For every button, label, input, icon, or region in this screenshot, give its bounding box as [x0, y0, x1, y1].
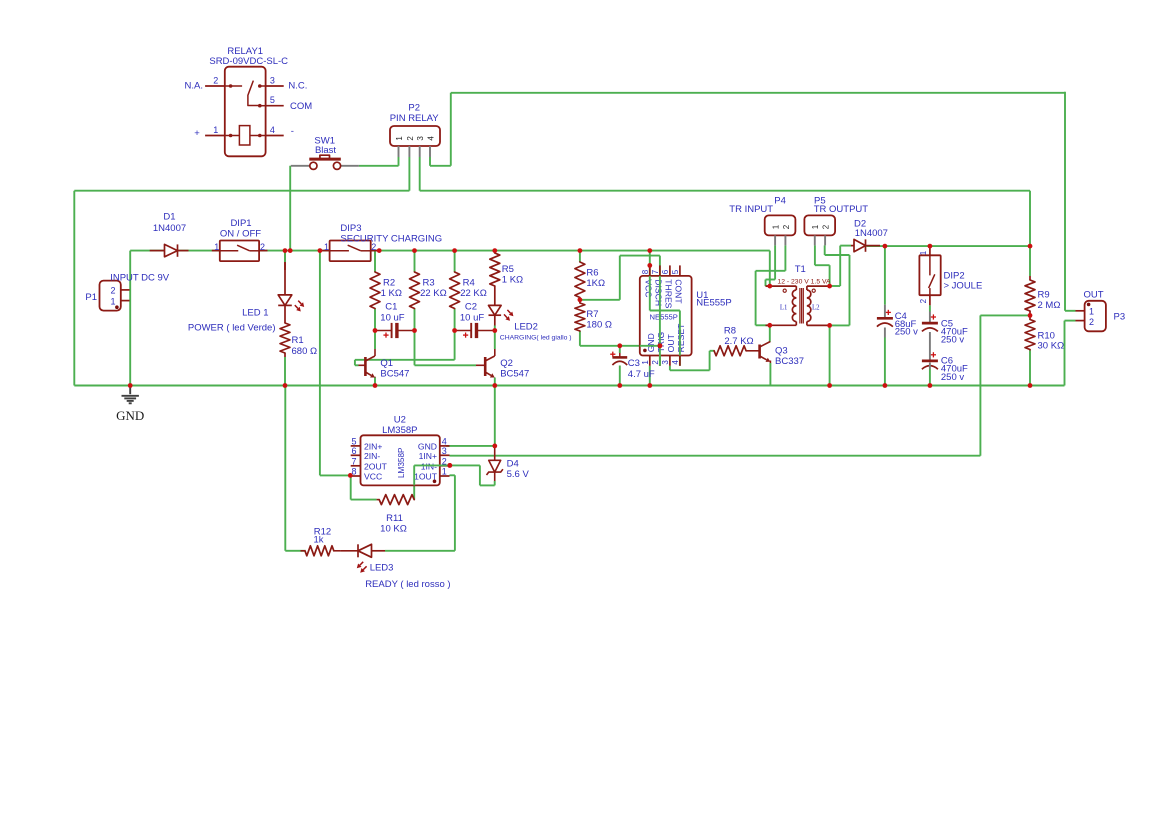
svg-text:R2: R2 — [383, 277, 395, 288]
svg-text:VCC: VCC — [364, 472, 382, 482]
svg-text:INPUT DC 9V: INPUT DC 9V — [110, 272, 170, 283]
junction dot 11 — [412, 328, 417, 333]
resistor R1 680 — [280, 323, 290, 353]
junction dot 38 — [492, 444, 497, 449]
svg-text:5: 5 — [671, 269, 680, 274]
zener diode D4 5.6V — [494, 446, 496, 460]
svg-text:4.7 uF: 4.7 uF — [628, 369, 655, 380]
resistor R11 10K — [377, 499, 380, 501]
svg-text:10 uF: 10 uF — [380, 313, 404, 324]
wire D2 cathode to corner — [867, 245, 1031, 247]
svg-text:LED3: LED3 — [370, 562, 394, 573]
switch DIP1 ON/OFF — [212, 250, 220, 252]
svg-text:COM: COM — [290, 101, 312, 112]
wire U1 interior DISCH-TRIG overlay — [659, 276, 661, 366]
svg-text:1IN+: 1IN+ — [419, 451, 437, 461]
svg-text:2 MΩ: 2 MΩ — [1038, 300, 1061, 311]
svg-text:6: 6 — [661, 269, 670, 274]
LED LED3 arrows — [360, 562, 363, 565]
svg-text:TR INPUT: TR INPUT — [729, 204, 773, 215]
wire U2 1IN- interior overlay — [413, 465, 415, 485]
wire R2 bottom to C-row — [374, 309, 376, 331]
svg-text:1KΩ: 1KΩ — [586, 278, 605, 289]
connector P4 TR INPUT — [765, 215, 796, 235]
wire C3 top lead — [619, 346, 621, 353]
wire SW1 column — [289, 166, 291, 251]
svg-text:NE555P: NE555P — [696, 298, 731, 309]
svg-text:U2: U2 — [394, 414, 406, 425]
junction dot 4 — [377, 248, 382, 253]
junction dot 23 — [1028, 383, 1033, 388]
svg-text:LED 1: LED 1 — [242, 308, 268, 319]
svg-text:1: 1 — [214, 242, 219, 252]
wire U1 interior VCC-RESET overlay — [649, 276, 651, 311]
junction dot 12 — [452, 328, 457, 333]
wire C4 bottom plus — [886, 311, 891, 313]
svg-text:2: 2 — [260, 242, 265, 252]
wire U1 interior TRIG row overlay — [640, 345, 660, 347]
svg-text:C3: C3 — [628, 358, 640, 369]
junction dot 6 — [452, 248, 457, 253]
junction dot 27 — [647, 263, 652, 268]
svg-text:1: 1 — [772, 224, 781, 229]
svg-text:PIN RELAY: PIN RELAY — [390, 113, 440, 124]
svg-text:L2: L2 — [812, 304, 820, 311]
resistor R5 1K — [490, 253, 500, 286]
resistor R6 1K — [575, 262, 585, 298]
junction dot 10 — [373, 328, 378, 333]
junction dot U2 1IN- overlay — [447, 463, 452, 468]
wire P5 pin2 to T1 secondary bottom — [824, 245, 826, 255]
wire R10 bottom — [1029, 351, 1031, 386]
ground symbol — [129, 386, 131, 395]
svg-text:TRIG: TRIG — [656, 331, 666, 352]
svg-text:3: 3 — [270, 76, 275, 86]
svg-text:> JOULE: > JOULE — [944, 281, 983, 292]
junction dot 7 — [492, 248, 497, 253]
capacitor C2 10uF — [455, 330, 472, 332]
svg-text:GND: GND — [116, 408, 144, 423]
junction dot 3 — [318, 248, 323, 253]
wire P4 pin2 to T1 primary bottom — [784, 245, 786, 270]
junction dot 33 — [928, 244, 933, 249]
svg-text:Blast: Blast — [315, 145, 336, 156]
svg-text:LM358P: LM358P — [382, 425, 417, 436]
junction dot 35 — [1028, 313, 1033, 318]
svg-text:2: 2 — [919, 298, 928, 303]
wire R6 column — [579, 251, 581, 262]
junction dot 8 — [578, 248, 583, 253]
svg-text:CHARGING( led giallo ): CHARGING( led giallo ) — [500, 335, 572, 342]
wire T1 secondary top to D2 anode — [830, 285, 841, 287]
svg-text:1 KΩ: 1 KΩ — [502, 274, 523, 285]
wire Q1 emitter to rail — [374, 378, 376, 386]
svg-text:READY ( led rosso ): READY ( led rosso ) — [365, 579, 450, 590]
switch DIP3 SECURITY CHARGING — [320, 250, 330, 252]
wire right column top — [1064, 92, 1066, 311]
resistor R12 1k — [301, 550, 306, 552]
junction dot 16 — [373, 383, 378, 388]
wire C1-right to Q2 base — [414, 331, 416, 366]
wire left loop vertical — [73, 191, 75, 386]
wire LED2 to C-row — [494, 315, 496, 325]
svg-text:DISCH: DISCH — [654, 279, 664, 306]
junction dot 29 — [767, 323, 772, 328]
svg-text:10 uF: 10 uF — [460, 313, 484, 324]
LED LED1 — [284, 262, 286, 295]
svg-text:P3: P3 — [1114, 312, 1126, 323]
transformer T1 — [766, 285, 797, 287]
svg-text:TR OUTPUT: TR OUTPUT — [814, 204, 869, 215]
wire P2 pin2 drop — [408, 157, 410, 191]
wire DIP2 bottom to C5 — [929, 305, 931, 311]
IC U1 NE555P body — [640, 276, 692, 356]
junction dot 19 — [647, 383, 652, 388]
svg-text:1: 1 — [110, 296, 115, 306]
connector P1 INPUT DC 9V — [100, 281, 121, 311]
wire top rail (P2 pin4 to right column) — [451, 92, 1065, 94]
diode D1 1N4007 — [150, 250, 165, 252]
svg-text:R3: R3 — [423, 277, 435, 288]
svg-text:SRD-09VDC-SL-C: SRD-09VDC-SL-C — [209, 56, 288, 67]
svg-text:4: 4 — [270, 125, 275, 135]
svg-text:R1: R1 — [292, 335, 304, 346]
wire C3 bottom to rail — [619, 366, 621, 386]
svg-text:BC337: BC337 — [775, 356, 804, 367]
wire R9-R10 junction tap — [980, 314, 1030, 316]
wire main rail — [130, 250, 770, 252]
LED LED3 — [340, 550, 358, 552]
svg-text:2: 2 — [651, 360, 660, 365]
svg-text:R7: R7 — [586, 309, 598, 320]
svg-text:2IN-: 2IN- — [364, 451, 380, 461]
svg-text:N.A.: N.A. — [185, 81, 203, 92]
wire Q3 emitter to rail — [769, 363, 771, 386]
wire P5 pin1 to T1 secondary top — [814, 245, 816, 265]
svg-text:8: 8 — [641, 269, 650, 274]
svg-text:1OUT: 1OUT — [414, 472, 438, 482]
wire bottom rail — [74, 385, 1064, 387]
svg-text:P2: P2 — [408, 103, 420, 114]
svg-text:C2: C2 — [465, 301, 477, 312]
wire main rail to T1 primary — [769, 251, 771, 287]
svg-text:2: 2 — [110, 286, 115, 296]
connector P5 TR OUTPUT — [804, 215, 835, 235]
svg-text:250 v: 250 v — [941, 372, 964, 383]
wire R5 column — [494, 251, 496, 253]
wire U2 1OUT to LED3 — [450, 474, 455, 476]
svg-text:250 v: 250 v — [941, 335, 964, 346]
diode D2 1N4007 — [851, 245, 854, 247]
wire mid rail right section — [420, 190, 1030, 192]
wire DIP2 top stub — [929, 246, 931, 255]
wire C2-left to Q1 base — [454, 331, 456, 360]
junction dot 32 — [883, 244, 888, 249]
wire R3 bottom to C-row — [414, 309, 416, 331]
svg-text:LED2: LED2 — [514, 321, 538, 332]
LED LED1 arrows — [298, 301, 301, 304]
junction dot 5 — [412, 248, 417, 253]
switch SW1 Blast — [291, 165, 310, 167]
svg-text:30 KΩ: 30 KΩ — [1038, 341, 1065, 352]
svg-text:22 KΩ: 22 KΩ — [420, 288, 447, 299]
capacitor C6 470uF — [922, 360, 938, 363]
svg-text:22 KΩ: 22 KΩ — [460, 288, 487, 299]
svg-text:BC547: BC547 — [380, 369, 409, 380]
junction dot 30 — [827, 284, 832, 289]
wire Q3 collector riser — [769, 325, 771, 342]
wire bottom rail right riser to P3 pin2 — [1064, 321, 1066, 386]
svg-text:1: 1 — [1089, 306, 1094, 316]
svg-text:5: 5 — [270, 95, 275, 105]
wire P2 pin4 drop — [429, 157, 431, 166]
svg-text:C1: C1 — [385, 301, 397, 312]
junction dot 37 — [447, 463, 452, 468]
svg-text:5.6 V: 5.6 V — [507, 469, 530, 480]
svg-text:2: 2 — [822, 224, 831, 229]
junction dot 34 — [1028, 244, 1033, 249]
svg-text:7: 7 — [351, 456, 356, 466]
svg-text:2: 2 — [406, 136, 415, 141]
svg-text:12 - 230 V 1.5 VA: 12 - 230 V 1.5 VA — [777, 279, 831, 286]
svg-text:+: + — [194, 128, 200, 139]
wire U2 1IN- net — [413, 465, 415, 499]
transistor Q1 BC547 — [364, 357, 367, 376]
wire Q2 emitter to rail — [494, 378, 496, 386]
svg-text:2: 2 — [213, 76, 218, 86]
wire mid rail left section — [74, 190, 409, 192]
svg-text:RESET: RESET — [676, 323, 686, 352]
wire LED3 row left — [301, 550, 306, 552]
transistor Q3 BC337 — [758, 345, 761, 359]
resistor R3 — [410, 272, 420, 309]
svg-text:7: 7 — [651, 269, 660, 274]
svg-text:3: 3 — [661, 360, 670, 365]
svg-text:2OUT: 2OUT — [364, 461, 388, 471]
svg-text:250 v: 250 v — [895, 326, 918, 337]
svg-text:3: 3 — [442, 446, 447, 456]
junction dot 21 — [883, 383, 888, 388]
svg-text:D4: D4 — [507, 459, 519, 470]
wire R11 left to VCC — [351, 499, 377, 501]
svg-text:THRES: THRES — [664, 279, 674, 308]
wire R1 column below rail to LED3 row — [284, 386, 286, 551]
junction dot 18 — [617, 383, 622, 388]
resistor R9 2M — [1029, 276, 1031, 280]
LED LED2 arrows — [507, 310, 510, 313]
svg-text:Q3: Q3 — [775, 346, 788, 357]
wire P3 pin1 feed — [1065, 310, 1076, 312]
wire R9 top — [1029, 246, 1031, 276]
svg-text:BC547: BC547 — [500, 369, 529, 380]
connector P2 PIN RELAY — [390, 126, 440, 146]
junction dot 2 — [288, 248, 293, 253]
wire U1 VCC-RESET through symbol — [649, 265, 651, 310]
wire LED1 column green stub — [284, 251, 286, 262]
svg-text:N.C.: N.C. — [288, 81, 307, 92]
wire R7 bottom to C3/TRIG — [579, 331, 581, 346]
svg-text:3: 3 — [416, 136, 425, 141]
junction dot 36 — [348, 473, 353, 478]
transistor Q2 BC547 — [484, 357, 487, 376]
svg-text:R5: R5 — [502, 264, 514, 275]
svg-text:R11: R11 — [386, 513, 403, 524]
svg-text:POWER ( led Verde): POWER ( led Verde) — [188, 323, 276, 334]
svg-text:1: 1 — [811, 224, 820, 229]
junction dot 22 — [928, 383, 933, 388]
svg-text:10 KΩ: 10 KΩ — [380, 523, 407, 534]
junction dot 13 — [492, 328, 497, 333]
svg-text:680 Ω: 680 Ω — [292, 346, 318, 357]
capacitor C3 4.7uF — [619, 353, 621, 357]
wire SW1 to P2 pin1 — [359, 165, 399, 167]
op-amp U2 LM358P body — [361, 435, 440, 485]
svg-text:Q1: Q1 — [380, 358, 393, 369]
wire C4 top — [884, 246, 886, 305]
svg-text:LM358P: LM358P — [397, 447, 406, 478]
wire P4 pin1 to T1 primary top — [774, 245, 776, 279]
relay RELAY1 SRD-09VDC-SL-C — [225, 67, 266, 157]
wire mid-rail drop at x=1030 — [1029, 191, 1031, 246]
junction dot 20 — [827, 383, 832, 388]
svg-text:DIP2: DIP2 — [944, 270, 965, 281]
svg-text:1: 1 — [919, 250, 928, 255]
junction dot 24 — [578, 297, 583, 302]
wire Q2 collector riser — [494, 331, 496, 350]
svg-text:D1: D1 — [163, 212, 175, 223]
svg-text:1: 1 — [324, 242, 329, 252]
svg-text:OUT: OUT — [1083, 289, 1103, 300]
capacitor C4 68uF — [884, 305, 886, 319]
svg-text:DIP3: DIP3 — [340, 223, 361, 234]
svg-text:1 KΩ: 1 KΩ — [381, 288, 402, 299]
resistor R2 — [370, 272, 380, 309]
svg-text:180 Ω: 180 Ω — [586, 320, 612, 331]
svg-text:GND: GND — [646, 333, 656, 352]
svg-text:1: 1 — [395, 136, 404, 141]
capacitor C1 10uF — [375, 330, 392, 332]
svg-text:6: 6 — [351, 446, 356, 456]
junction dot TRIG overlay — [658, 343, 663, 348]
svg-text:2IN+: 2IN+ — [364, 441, 382, 451]
wire R4 column — [454, 251, 456, 272]
LED LED2 — [489, 305, 502, 315]
svg-text:VCC: VCC — [644, 279, 654, 297]
wire Q1 collector riser — [374, 331, 376, 350]
svg-text:CONT: CONT — [674, 279, 684, 304]
connector P3 OUT — [1085, 301, 1106, 332]
svg-text:1k: 1k — [313, 535, 323, 546]
wire U1 OUT to R8 — [669, 366, 671, 371]
svg-text:2: 2 — [782, 224, 791, 229]
svg-text:1: 1 — [641, 360, 650, 365]
junction dot 31 — [827, 323, 832, 328]
svg-text:OUT: OUT — [666, 333, 676, 352]
svg-text:T1: T1 — [795, 264, 806, 275]
wire U1 GND to rail — [649, 366, 651, 386]
junction dot 1 — [283, 248, 288, 253]
junction dot 14 — [128, 383, 133, 388]
svg-text:P1: P1 — [85, 292, 97, 303]
capacitor C5 470uF — [929, 312, 931, 324]
svg-text:1: 1 — [442, 467, 447, 477]
svg-text:4: 4 — [671, 360, 680, 365]
transistor Q1 base stub — [359, 364, 366, 366]
wire R6-R7 junction to DISCH — [580, 299, 620, 301]
svg-text:2.7 KΩ: 2.7 KΩ — [724, 336, 753, 347]
wire R2 column — [374, 251, 376, 272]
svg-text:ON / OFF: ON / OFF — [220, 228, 261, 239]
wire R4 bottom to C-row — [454, 309, 456, 331]
svg-text:NE555P: NE555P — [650, 313, 678, 322]
svg-text:2: 2 — [1089, 317, 1094, 327]
svg-text:SECURITY CHARGING: SECURITY CHARGING — [340, 233, 442, 244]
transistor Q2 base stub — [476, 364, 485, 366]
svg-text:2: 2 — [371, 242, 376, 252]
switch DIP2 >JOULE — [919, 255, 940, 295]
resistor R8 2.7K — [714, 346, 746, 356]
svg-text:GND: GND — [418, 441, 437, 451]
svg-text:1: 1 — [213, 125, 218, 135]
junction dot 17 — [492, 383, 497, 388]
junction dot 9 — [647, 248, 652, 253]
wire U2 GND to bottom rail — [494, 386, 496, 446]
resistor R7 180 — [579, 300, 581, 303]
svg-text:4: 4 — [426, 136, 435, 141]
junction dot 26 — [658, 343, 663, 348]
wire DIP3 feed to U2 VCC — [319, 251, 321, 476]
wire C6 bottom to rail — [929, 369, 931, 386]
wire P1 column — [129, 251, 131, 386]
svg-text:1N4007: 1N4007 — [153, 223, 186, 234]
wire R1 to bottom rail — [284, 357, 286, 386]
wire U2 GND pin — [446, 445, 495, 447]
svg-text:1N4007: 1N4007 — [855, 228, 888, 239]
junction dot 25 — [617, 343, 622, 348]
wire C5-C6 link — [929, 332, 931, 360]
wire R3 column — [414, 251, 416, 272]
svg-text:R6: R6 — [586, 268, 598, 279]
wire T1 secondary bottom to rail — [829, 325, 831, 385]
junction dot 28 — [767, 284, 772, 289]
svg-text:P4: P4 — [774, 195, 786, 206]
svg-text:L1: L1 — [780, 304, 788, 311]
svg-text:Q2: Q2 — [500, 358, 513, 369]
wire LED1 column top — [284, 251, 286, 270]
wire U1 VCC drop — [649, 251, 651, 266]
resistor R10 30K — [1029, 315, 1031, 319]
svg-text:R4: R4 — [463, 277, 475, 288]
resistor R4 — [450, 272, 460, 309]
wire P2 pin3 drop — [419, 157, 421, 191]
junction dot 15 — [283, 383, 288, 388]
svg-text:-: - — [291, 126, 294, 137]
